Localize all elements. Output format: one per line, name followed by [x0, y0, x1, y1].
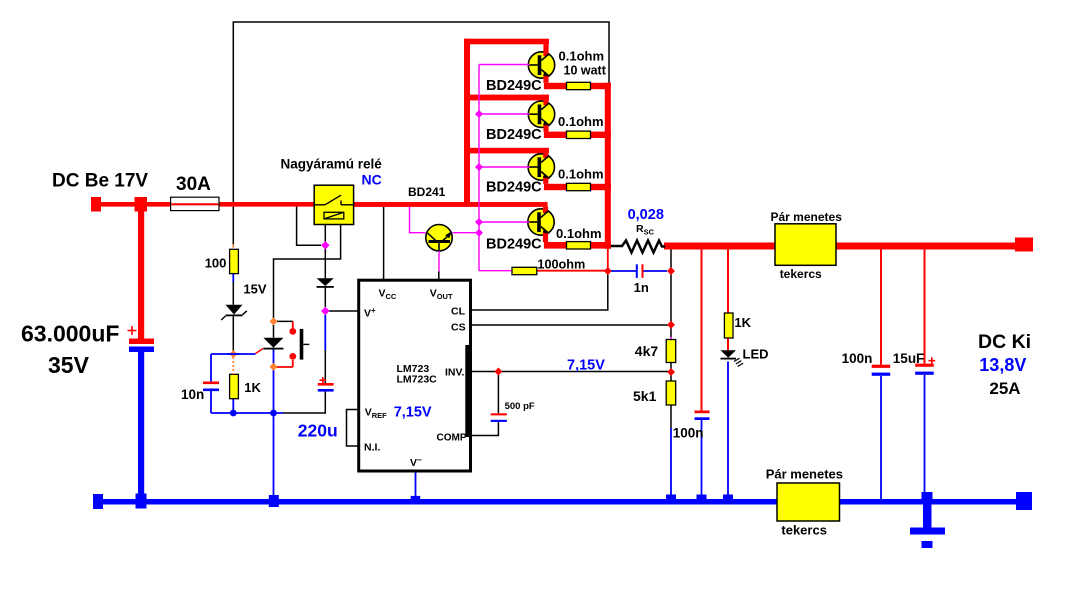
- svg-text:25A: 25A: [989, 379, 1020, 398]
- svg-text:35V: 35V: [48, 352, 90, 378]
- svg-text:13,8V: 13,8V: [979, 355, 1026, 375]
- svg-text:7,15V: 7,15V: [394, 405, 432, 421]
- svg-text:BD249C: BD249C: [486, 237, 542, 253]
- svg-text:10n: 10n: [181, 387, 204, 402]
- svg-text:100n: 100n: [673, 426, 704, 441]
- svg-text:15uF: 15uF: [893, 351, 925, 366]
- svg-text:0.1ohm: 0.1ohm: [559, 49, 605, 64]
- svg-text:7,15V: 7,15V: [567, 358, 605, 374]
- svg-text:CS: CS: [451, 322, 466, 334]
- svg-text:DC Be 17V: DC Be 17V: [52, 171, 148, 192]
- svg-text:Pár menetes: Pár menetes: [771, 210, 843, 224]
- svg-text:220u: 220u: [298, 421, 338, 441]
- svg-text:COMP: COMP: [437, 433, 467, 444]
- svg-text:0,028: 0,028: [628, 207, 664, 223]
- svg-text:30A: 30A: [176, 174, 211, 195]
- svg-text:5k1: 5k1: [633, 388, 657, 404]
- svg-text:4k7: 4k7: [635, 343, 659, 359]
- svg-text:BD249C: BD249C: [486, 78, 542, 94]
- svg-text:100n: 100n: [842, 351, 873, 366]
- svg-text:NC: NC: [362, 172, 382, 188]
- svg-text:0.1ohm: 0.1ohm: [558, 166, 604, 181]
- svg-text:LM723C: LM723C: [397, 374, 438, 386]
- svg-text:100: 100: [205, 256, 227, 271]
- svg-text:CL: CL: [451, 306, 466, 318]
- svg-text:LED: LED: [743, 347, 769, 362]
- svg-text:BD249C: BD249C: [486, 127, 542, 143]
- svg-text:0.1ohm: 0.1ohm: [556, 226, 602, 241]
- svg-text:0.1ohm: 0.1ohm: [558, 114, 604, 129]
- svg-text:BD249C: BD249C: [486, 179, 542, 195]
- svg-text:BD241: BD241: [408, 185, 446, 199]
- svg-text:1n: 1n: [634, 280, 649, 295]
- svg-text:Pár menetes: Pár menetes: [766, 466, 843, 481]
- svg-text:63.000uF: 63.000uF: [21, 321, 119, 347]
- svg-text:Nagyáramú relé: Nagyáramú relé: [281, 157, 383, 172]
- svg-text:1K: 1K: [734, 315, 751, 330]
- svg-text:tekercs: tekercs: [781, 523, 827, 538]
- svg-text:1K: 1K: [244, 380, 261, 395]
- svg-text:500 pF: 500 pF: [505, 401, 535, 412]
- svg-text:15V: 15V: [243, 282, 266, 297]
- svg-text:tekercs: tekercs: [780, 267, 822, 281]
- svg-text:DC Ki: DC Ki: [978, 331, 1031, 353]
- svg-text:INV.: INV.: [445, 367, 465, 379]
- svg-text:100ohm: 100ohm: [537, 257, 585, 271]
- svg-text:N.I.: N.I.: [364, 442, 380, 454]
- svg-text:10 watt: 10 watt: [564, 64, 607, 78]
